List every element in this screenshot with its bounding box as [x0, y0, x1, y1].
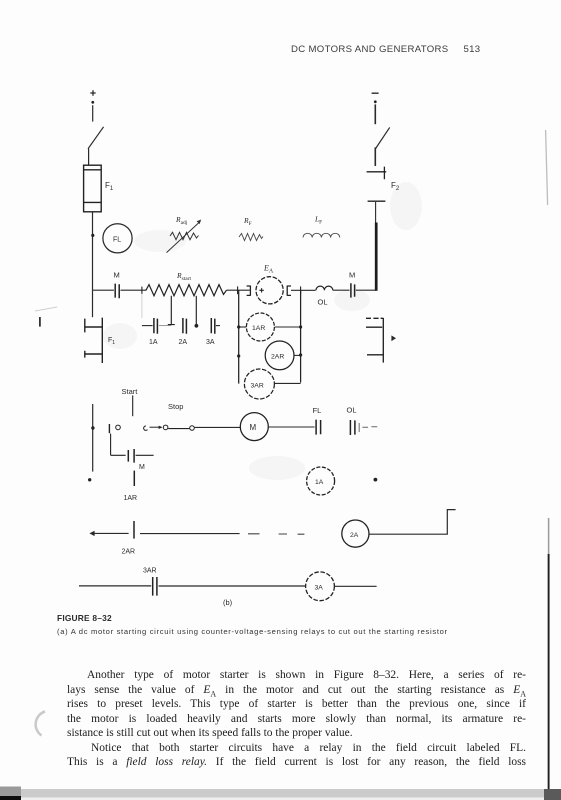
wire [275, 382, 301, 384]
relay coil M [240, 413, 268, 441]
svg-text:FL: FL [113, 237, 121, 244]
svg-text:Start: Start [122, 387, 139, 396]
contact 2A [183, 318, 187, 334]
svg-text:3AR: 3AR [143, 568, 157, 575]
fuse F1 [84, 165, 102, 212]
contact 3A [211, 318, 220, 334]
disconnect bracket (right, faded) [366, 318, 383, 363]
label Rstart [176, 271, 192, 282]
relay coil 3AR [244, 369, 274, 399]
label LF [314, 215, 322, 226]
wire [275, 326, 301, 328]
wire [374, 104, 376, 124]
svg-text:2A: 2A [179, 339, 188, 346]
label FL [313, 406, 322, 415]
svg-text:3AR: 3AR [251, 383, 264, 390]
wire [227, 289, 250, 291]
label F1 [105, 181, 114, 192]
page edge line lower (scan) [548, 518, 550, 790]
relay coil FL (field loss relay) [103, 224, 132, 253]
wire [294, 354, 300, 356]
wire [239, 326, 247, 328]
label 3A (coil) [315, 585, 324, 592]
label 2A [179, 339, 188, 346]
relay coil 1AR [246, 313, 274, 341]
wire: left rail lower [92, 290, 94, 317]
fuse F1' (left disconnect remnant) [85, 318, 103, 363]
label EA [263, 264, 274, 275]
relay coil 2AR [265, 341, 294, 370]
node: field branch tap [91, 234, 94, 237]
svg-text:RF: RF [243, 216, 252, 227]
wire: right rail thick [375, 223, 378, 291]
wire: row 2A right with riser [369, 510, 456, 535]
label Stop [168, 402, 183, 411]
wire: relay column right [299, 290, 302, 382]
node: relay column tap left [237, 286, 239, 294]
resistor Rstart [144, 285, 227, 296]
wire: resistor tap 2 [195, 296, 199, 328]
label M (seal-in) [139, 464, 145, 471]
wire [92, 105, 94, 121]
brush (armature left) [247, 286, 251, 296]
inductor LF (field winding) [303, 233, 340, 237]
label 2AR [122, 549, 136, 556]
wire [121, 289, 144, 291]
wire: bypass line [142, 325, 153, 327]
node: relay column tap right [300, 286, 302, 294]
contact 3AR [153, 577, 157, 596]
label 1AR [124, 495, 138, 502]
svg-text:(b): (b) [223, 598, 233, 607]
contact 2AR [133, 521, 135, 539]
svg-text:3A: 3A [206, 339, 215, 346]
page edge line upper (scan) [546, 130, 548, 205]
wire: resistor tap 1 [168, 296, 175, 325]
contact M (main line, left) [115, 284, 119, 299]
relay coil 1A [307, 467, 335, 495]
bottom page edge band (scan) [0, 787, 561, 800]
wire [335, 585, 377, 587]
svg-text:Stop: Stop [168, 402, 183, 411]
svg-text:M: M [250, 423, 257, 432]
svg-text:M: M [139, 464, 145, 471]
node: bypass tap (left) [141, 287, 143, 294]
svg-text:1A: 1A [315, 479, 324, 486]
label M (coil) [250, 423, 257, 432]
wire [88, 149, 90, 166]
wire [333, 289, 350, 291]
svg-text:Radj: Radj [175, 215, 188, 226]
photocopy smudges (decorative) [103, 182, 422, 480]
svg-text:2AR: 2AR [271, 354, 284, 361]
label Radj [175, 215, 188, 226]
relay coil 3A [306, 572, 335, 601]
label 3AR [143, 568, 157, 575]
svg-text:Rstart: Rstart [176, 271, 192, 282]
figure caption [57, 613, 112, 623]
svg-text:EA: EA [263, 264, 274, 275]
label Start [122, 387, 139, 396]
fuse F2 (faded outline) [367, 167, 387, 202]
contact 1AR [133, 471, 135, 486]
contact OL [350, 420, 359, 435]
wire: right rail thin [375, 202, 377, 223]
switch S1 (left knife switch) [88, 127, 104, 149]
label 2A (coil) [350, 532, 359, 539]
label 3A [206, 339, 215, 346]
label F1' [108, 337, 115, 346]
svg-text:F1: F1 [105, 181, 114, 192]
svg-text:1AR: 1AR [252, 325, 265, 332]
svg-text:LF: LF [314, 215, 322, 226]
running head: DC MOTORS AND GENERATORS 513 [291, 44, 480, 55]
node: + supply terminal (left) [90, 90, 95, 103]
svg-text:2A: 2A [350, 532, 359, 539]
switch S2 (right knife switch) [375, 127, 389, 149]
resistor Radj (adjustable) [167, 220, 202, 253]
svg-text:1A: 1A [149, 339, 158, 346]
svg-text:M: M [114, 271, 120, 280]
hole punch shadow (scan) [36, 712, 45, 736]
label (b) faint [223, 598, 233, 607]
svg-text:M: M [349, 271, 355, 280]
contact M (seal-in) [111, 434, 154, 463]
machine armature EA [256, 277, 283, 304]
node (right, row 1A) [374, 478, 378, 482]
wire: armature main line left [93, 289, 114, 291]
wire: rail stub row 1A [88, 478, 91, 481]
wire (faded drop to bypass line) [141, 294, 143, 318]
label M [114, 271, 120, 280]
wire [159, 585, 306, 587]
node: - supply terminal (right) [372, 93, 379, 103]
label OL [347, 406, 357, 415]
svg-text:2AR: 2AR [122, 549, 136, 556]
svg-text:3A: 3A [315, 585, 324, 592]
wire [269, 426, 315, 428]
wire: row 3A left [79, 585, 151, 587]
label OL [318, 298, 328, 307]
svg-text:1AR: 1AR [124, 495, 138, 502]
wire [356, 289, 377, 291]
wire (faded stub) [362, 426, 377, 428]
svg-text:F2: F2 [391, 181, 400, 192]
wire [195, 426, 241, 428]
label 2AR [271, 354, 284, 361]
resistor RF (field resistance) [239, 234, 263, 241]
svg-text:OL: OL [318, 298, 328, 307]
stray mark (scan) [39, 317, 41, 327]
wire (faded) [159, 325, 171, 327]
label 3AR [251, 383, 264, 390]
wire: relay column left [237, 290, 240, 383]
pushbutton Start [109, 395, 132, 433]
wire: control rail [91, 404, 94, 472]
label 1A (coil) [315, 479, 324, 486]
relay coil 2A [342, 520, 369, 547]
stray streak (scan) [35, 307, 57, 311]
wire [291, 289, 316, 291]
body text [87, 669, 526, 681]
wire: row 2A left [89, 531, 128, 536]
arrow marker [391, 335, 396, 341]
wire [140, 533, 240, 535]
wire [374, 147, 376, 166]
contact FL [316, 420, 321, 435]
pushbutton Stop [144, 425, 195, 430]
label RF [243, 216, 252, 227]
label 1AR [252, 325, 265, 332]
svg-text:FL: FL [313, 406, 322, 415]
label F2 [391, 181, 400, 192]
contact M (main line, right) [351, 283, 355, 297]
brush (armature right) [287, 286, 291, 296]
polarity + mark [259, 288, 263, 292]
overload heater OL [316, 286, 333, 290]
svg-text:OL: OL [347, 406, 357, 415]
label 1A [149, 339, 158, 346]
wire (faded dashes) [248, 533, 304, 535]
wire: left rail [92, 212, 94, 290]
contact 1A [154, 318, 158, 334]
label M [349, 271, 355, 280]
